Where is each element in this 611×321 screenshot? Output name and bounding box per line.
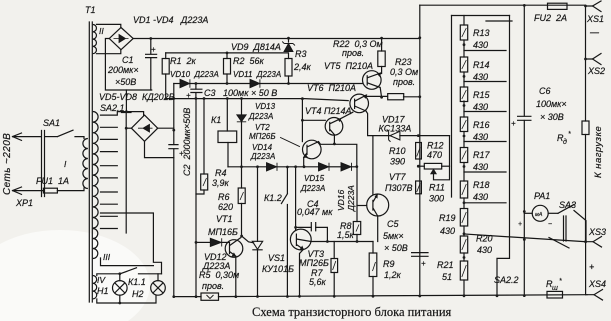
svg-text:× 50В: × 50В <box>384 243 408 253</box>
svg-text:VD10 Д223А: VD10 Д223А <box>170 70 219 79</box>
svg-text:×50В: ×50В <box>115 77 136 87</box>
svg-text:51: 51 <box>442 272 452 282</box>
svg-text:R17: R17 <box>473 150 491 160</box>
svg-text:VT2: VT2 <box>255 123 270 132</box>
svg-text:430: 430 <box>473 72 488 82</box>
svg-text:д: д <box>563 138 567 146</box>
svg-text:+: + <box>186 91 191 100</box>
svg-text:Т1: Т1 <box>85 5 96 15</box>
svg-text:R15: R15 <box>473 90 491 100</box>
svg-text:FU1 1А: FU1 1А <box>36 176 69 186</box>
svg-text:R3: R3 <box>295 49 307 59</box>
svg-text:VD16: VD16 <box>336 189 346 211</box>
svg-text:VT5 П210А: VT5 П210А <box>324 61 373 71</box>
svg-text:SA3: SA3 <box>559 200 576 210</box>
svg-text:+: + <box>421 259 426 268</box>
svg-text:2,4к: 2,4к <box>293 62 312 72</box>
svg-text:VD9 Д814А: VD9 Д814А <box>231 42 281 52</box>
svg-text:Н2: Н2 <box>132 289 144 299</box>
svg-text:R2 56к: R2 56к <box>233 56 265 66</box>
svg-text:R9: R9 <box>383 259 395 269</box>
svg-text:VT1: VT1 <box>216 214 233 224</box>
svg-text:С1: С1 <box>122 55 134 65</box>
svg-text:II: II <box>99 26 104 36</box>
svg-text:430: 430 <box>473 102 488 112</box>
svg-text:МП26Б: МП26Б <box>249 132 276 141</box>
svg-text:+: + <box>518 221 522 228</box>
svg-text:390: 390 <box>390 157 405 167</box>
svg-text:ш: ш <box>552 285 558 292</box>
svg-text:пров.: пров. <box>342 48 364 58</box>
svg-text:КС133А: КС133А <box>379 124 412 134</box>
svg-text:С2 2000мк×50В: С2 2000мк×50В <box>182 108 192 176</box>
svg-text:0,047 мк: 0,047 мк <box>297 207 333 217</box>
svg-text:III: III <box>103 252 111 262</box>
svg-text:Схема транзисторного блока пит: Схема транзисторного блока питания <box>252 305 452 319</box>
svg-text:× 30В: × 30В <box>540 112 564 122</box>
svg-text:VT4 П214А: VT4 П214А <box>305 106 352 116</box>
svg-text:1,5к: 1,5к <box>337 230 355 240</box>
svg-text:*: * <box>568 131 571 138</box>
svg-text:МП16Б: МП16Б <box>208 227 238 237</box>
svg-text:С5: С5 <box>387 219 399 229</box>
svg-text:МП26Б: МП26Б <box>299 258 329 268</box>
svg-text:+: + <box>511 119 516 128</box>
svg-text:+: + <box>179 149 184 158</box>
svg-text:К1: К1 <box>211 115 221 125</box>
svg-text:R12: R12 <box>427 141 444 151</box>
svg-text:Н1: Н1 <box>97 286 109 296</box>
svg-text:VD14: VD14 <box>252 143 273 152</box>
svg-text:470: 470 <box>427 150 442 160</box>
svg-text:VT6 П210А: VT6 П210А <box>307 83 356 93</box>
svg-text:VD1 -VD4 Д223А: VD1 -VD4 Д223А <box>133 15 208 25</box>
svg-text:+: + <box>589 262 594 272</box>
svg-text:R16: R16 <box>473 120 490 130</box>
svg-text:Сеть ~220В: Сеть ~220В <box>2 133 13 195</box>
svg-text:−: − <box>548 221 552 228</box>
svg-text:ХР1: ХР1 <box>15 198 33 208</box>
svg-text:VS1: VS1 <box>268 253 285 263</box>
svg-text:пров.: пров. <box>393 77 415 87</box>
svg-text:мА: мА <box>535 212 543 218</box>
svg-text:РА1: РА1 <box>534 191 550 201</box>
svg-text:0,3 Ом: 0,3 Ом <box>390 67 418 77</box>
svg-text:XS4: XS4 <box>588 279 606 289</box>
svg-text:3,9к: 3,9к <box>212 178 230 188</box>
svg-text:300: 300 <box>429 194 444 204</box>
svg-text:VD15: VD15 <box>304 174 325 183</box>
svg-text:SA2.2: SA2.2 <box>494 275 519 285</box>
svg-text:XS1: XS1 <box>586 14 604 24</box>
svg-text:R11: R11 <box>429 183 445 193</box>
svg-text:*: * <box>559 278 562 285</box>
svg-text:R4: R4 <box>215 168 227 178</box>
svg-text:430: 430 <box>440 226 455 236</box>
svg-text:R20: R20 <box>476 234 493 244</box>
svg-text:SA2.1: SA2.1 <box>100 103 125 113</box>
svg-text:R6: R6 <box>218 192 230 202</box>
svg-text:С3 100мк × 50 В: С3 100мк × 50 В <box>204 88 277 98</box>
svg-text:VD13: VD13 <box>255 102 276 111</box>
svg-text:200мк×: 200мк× <box>107 65 139 75</box>
svg-text:VT7: VT7 <box>389 172 407 182</box>
svg-text:Д223А: Д223А <box>250 152 275 161</box>
svg-text:+: + <box>151 45 156 54</box>
svg-text:R13: R13 <box>473 28 490 38</box>
svg-text:К нагрузке: К нагрузке <box>593 126 604 178</box>
svg-text:620: 620 <box>218 202 233 212</box>
svg-text:Д223А: Д223А <box>346 185 356 212</box>
svg-text:430: 430 <box>473 162 488 172</box>
svg-text:R21: R21 <box>437 260 454 270</box>
svg-text:С6: С6 <box>539 86 551 96</box>
svg-text:R14: R14 <box>473 60 490 70</box>
svg-text:R10: R10 <box>389 146 406 156</box>
svg-text:Д223А: Д223А <box>300 184 325 193</box>
svg-text:430: 430 <box>473 132 488 142</box>
svg-text:5,6к: 5,6к <box>309 277 327 287</box>
svg-text:XS2: XS2 <box>587 66 605 76</box>
svg-text:SA1: SA1 <box>43 118 60 128</box>
svg-text:VD5-VD8 КД202В: VD5-VD8 КД202В <box>99 92 175 102</box>
svg-text:Д223А: Д223А <box>248 112 273 121</box>
svg-text:430: 430 <box>473 40 488 50</box>
svg-text:100мк×: 100мк× <box>536 99 567 109</box>
svg-text:1,2к: 1,2к <box>384 270 402 280</box>
svg-text:R19: R19 <box>439 213 456 223</box>
svg-text:IV: IV <box>97 275 106 285</box>
svg-text:К1.2: К1.2 <box>264 193 282 203</box>
svg-text:—: — <box>589 27 600 37</box>
svg-text:К1.1: К1.1 <box>128 277 146 287</box>
svg-text:FU2 2А: FU2 2А <box>534 13 567 23</box>
svg-text:430: 430 <box>473 192 488 202</box>
svg-text:пров.: пров. <box>202 281 224 291</box>
svg-text:R23: R23 <box>395 57 412 67</box>
svg-text:R18: R18 <box>473 180 490 190</box>
svg-text:КУ101Б: КУ101Б <box>262 264 294 274</box>
svg-text:5мк×: 5мк× <box>383 231 404 241</box>
svg-text:430: 430 <box>477 245 492 255</box>
svg-text:П307В: П307В <box>385 183 413 193</box>
svg-text:R5 0,30м: R5 0,30м <box>199 270 239 280</box>
svg-text:XS3: XS3 <box>588 227 606 237</box>
svg-text:R1 2к: R1 2к <box>170 56 197 66</box>
svg-text:VD11 Д223А: VD11 Д223А <box>233 70 281 79</box>
